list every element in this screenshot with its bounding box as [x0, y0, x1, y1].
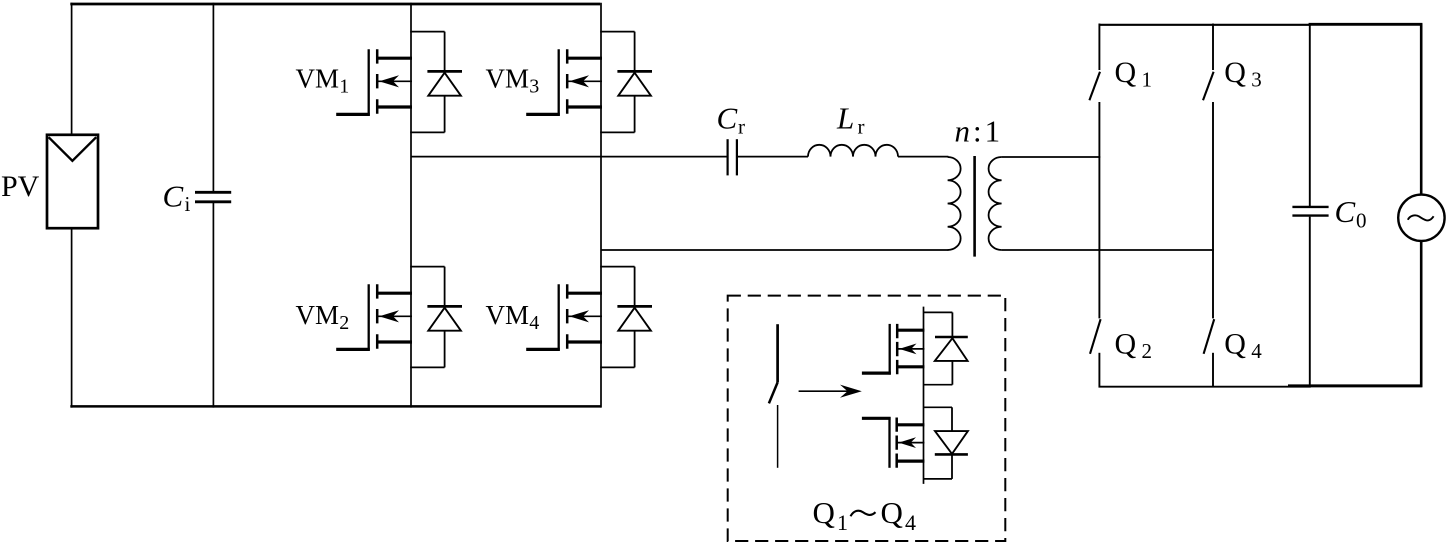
box mosfet lower drain lead	[897, 423, 925, 426]
transistor VM4 gate line	[558, 284, 560, 351]
transistor VM4 gate lead	[526, 348, 560, 351]
wire secondary top lead	[1002, 156, 1101, 158]
wire output node A to Cr	[411, 156, 727, 158]
switch Q1 blade	[1089, 72, 1100, 100]
transistor VM3 drain lead	[567, 57, 602, 60]
label Q1	[1115, 56, 1153, 92]
transistor VM2 body lead with arrow	[377, 310, 412, 322]
svg-text:1: 1	[1142, 67, 1153, 91]
transistor VM3 channel	[566, 49, 569, 114]
svg-text:3: 3	[529, 75, 539, 97]
label Ci	[163, 178, 191, 216]
wire right bottom bus bold segment	[1288, 384, 1422, 387]
switch symbol blade	[769, 382, 778, 403]
diode D1 top connector wire	[410, 31, 444, 33]
capacitor C0 plates	[1292, 207, 1328, 216]
switch Q3 blade	[1203, 72, 1214, 100]
transistor VM1 channel	[376, 49, 379, 114]
wire PV bottom lead	[71, 228, 73, 408]
wire Q3/Q4 leg upper	[1212, 24, 1214, 71]
diode D1 triangle	[428, 73, 461, 96]
wire top bus (DC link +)	[70, 3, 600, 6]
wire Ci upper lead	[212, 3, 214, 191]
box diode lower cathode bar	[935, 453, 968, 456]
box diode lower triangle (pointing down)	[935, 431, 968, 454]
svg-text:Q: Q	[1224, 327, 1246, 360]
transformer T1 secondary winding	[989, 157, 1002, 250]
box mosfet lower body lead with arrow	[897, 437, 925, 448]
box diode upper top connector	[924, 311, 953, 313]
transistor VM2 channel	[376, 284, 379, 349]
wire Q1/Q2 leg upper	[1098, 24, 1100, 71]
diode D2 cathode bar	[427, 305, 462, 308]
wire PV top lead	[71, 3, 73, 136]
diode D3 top connector wire	[600, 31, 634, 33]
wire Cr to Lr	[738, 156, 808, 158]
label PV	[1, 170, 40, 203]
diode D4 top connector wire	[600, 266, 634, 268]
box mosfet upper gate line	[889, 324, 891, 375]
svg-text:VM: VM	[486, 300, 530, 330]
label Q3	[1224, 56, 1262, 92]
transistor VM2 source lead	[377, 340, 412, 343]
svg-text:2: 2	[1142, 339, 1153, 363]
box diode lower branch lower	[951, 454, 953, 479]
svg-text:4: 4	[529, 312, 539, 334]
svg-text:4: 4	[1251, 339, 1262, 363]
label n:1	[955, 114, 1001, 149]
wire AC source lower lead	[1420, 241, 1423, 387]
switch Q2 blade	[1090, 319, 1101, 354]
wire Q1/Q2 leg lower	[1098, 353, 1100, 388]
diode D3 bottom connector wire	[600, 131, 634, 133]
inductor Lr	[808, 145, 898, 157]
diode D2 bottom connector wire	[410, 366, 444, 368]
label VM2	[296, 300, 350, 334]
box mosfet upper body lead with arrow	[897, 344, 924, 355]
box mosfet lower gate lead	[862, 417, 891, 420]
diode D4 cathode bar	[617, 305, 652, 308]
box mosfet upper source lead	[897, 365, 924, 368]
svg-text:Q: Q	[1224, 56, 1246, 89]
wire C0 upper lead	[1309, 24, 1311, 207]
switch symbol lower contact	[777, 405, 779, 468]
svg-text:C: C	[717, 101, 738, 136]
svg-text:Q: Q	[813, 495, 835, 530]
svg-text:i: i	[185, 192, 191, 216]
diode D2 branch wire lower	[444, 331, 446, 368]
diode D1 cathode bar	[427, 70, 462, 73]
svg-text:C: C	[163, 178, 184, 213]
transformer T1 primary winding	[948, 157, 961, 250]
svg-text:Q: Q	[1115, 327, 1137, 360]
box mosfet center vertical wire	[923, 307, 925, 484]
box mosfet lower source lead	[897, 460, 925, 463]
box diode lower top connector	[924, 406, 953, 408]
svg-text:3: 3	[1251, 67, 1262, 91]
transistor VM4 drain lead	[567, 292, 602, 295]
svg-text:r: r	[858, 115, 865, 139]
svg-text:VM: VM	[296, 63, 340, 93]
svg-text:Q: Q	[881, 495, 903, 530]
wire bottom bus (DC link -)	[70, 405, 601, 408]
label Q4	[1224, 327, 1262, 363]
label Q2	[1115, 327, 1153, 363]
transistor VM1 drain lead	[377, 57, 412, 60]
label Lr	[836, 101, 865, 139]
diode D2 top connector wire	[410, 266, 444, 268]
box diode upper branch upper	[951, 312, 953, 337]
transistor VM3 gate line	[558, 49, 560, 116]
transistor VM2 gate lead	[336, 348, 370, 351]
diode D4 branch wire lower	[634, 331, 636, 368]
wire right bridge leg (VM3/VM4)	[600, 3, 602, 408]
wire Ci lower lead	[212, 203, 214, 408]
box diode upper bottom connector	[924, 384, 953, 386]
label VM3	[486, 63, 540, 97]
dashed box Q1~Q4 detail	[728, 296, 1006, 541]
box diode upper cathode bar	[935, 336, 968, 339]
label VM1	[296, 63, 350, 97]
switch symbol upper contact	[776, 324, 779, 382]
box diode lower branch upper	[951, 407, 953, 430]
PV panel symbol	[47, 135, 98, 228]
transistor VM3 body lead with arrow	[567, 75, 602, 87]
transistor VM4 body lead with arrow	[567, 310, 602, 322]
svg-text:n:1: n:1	[955, 114, 1001, 149]
box mosfet lower gate line	[888, 417, 890, 468]
wire Lr to transformer primary	[898, 156, 948, 158]
svg-text:VM: VM	[486, 63, 530, 93]
transistor VM2 gate line	[368, 284, 370, 351]
svg-text:PV: PV	[1, 170, 40, 203]
wire right top bus	[1099, 24, 1311, 26]
AC source circle	[1398, 195, 1444, 241]
diode D1 branch wire lower	[444, 96, 446, 133]
wire Q3/Q4 leg middle	[1212, 102, 1214, 318]
svg-text:L: L	[836, 101, 854, 136]
diode D3 branch wire upper	[634, 32, 636, 72]
wire Q3/Q4 leg lower	[1212, 353, 1214, 388]
wire C0 lower lead	[1309, 217, 1311, 388]
label Cr	[717, 101, 746, 139]
box diode lower bottom connector	[924, 478, 953, 480]
box diode upper branch lower	[951, 361, 953, 385]
svg-text:VM: VM	[296, 300, 340, 330]
label Q1~Q4	[813, 495, 917, 535]
diode D3 triangle	[618, 73, 651, 96]
transistor VM1 gate lead	[336, 113, 370, 116]
diode D1 branch wire upper	[444, 32, 446, 72]
capacitor Ci plates	[195, 192, 231, 202]
diode D2 branch wire upper	[444, 267, 446, 307]
wire right bottom bus	[1099, 386, 1311, 388]
transistor VM2 drain lead	[377, 292, 412, 295]
box mosfet upper drain lead	[897, 329, 924, 332]
transistor VM4 channel	[566, 284, 569, 349]
diode D4 bottom connector wire	[600, 366, 634, 368]
transistor VM4 source lead	[567, 340, 602, 343]
wire output node B to transformer primary bottom	[601, 249, 948, 251]
svg-text:0: 0	[1356, 209, 1367, 233]
wire Q1/Q2 leg middle	[1098, 102, 1100, 318]
wire AC source upper lead	[1420, 24, 1423, 196]
box mosfet upper gate lead	[862, 372, 891, 375]
box mosfet upper channel	[896, 324, 899, 374]
diode D3 branch wire lower	[634, 96, 636, 133]
diode D4 triangle	[618, 308, 651, 331]
transformer T1 core	[973, 156, 976, 257]
switch Q4 blade	[1204, 319, 1215, 354]
label C0	[1335, 194, 1367, 233]
wire left bridge leg (VM1/VM2)	[410, 3, 412, 408]
svg-text:2: 2	[339, 312, 349, 334]
wire right top bus bold segment	[1309, 23, 1423, 26]
svg-text:1: 1	[837, 510, 848, 535]
transistor VM1 source lead	[377, 105, 412, 108]
svg-text:Q: Q	[1115, 56, 1137, 89]
transistor VM3 source lead	[567, 105, 602, 108]
box mosfet lower channel	[895, 418, 898, 468]
transistor VM1 gate line	[368, 49, 370, 116]
box diode upper triangle	[935, 338, 968, 361]
label VM4	[486, 300, 540, 334]
svg-text:r: r	[738, 115, 745, 139]
transistor VM1 body lead with arrow	[377, 75, 412, 87]
diode D2 triangle	[428, 308, 461, 331]
diode D4 branch wire upper	[634, 267, 636, 307]
transistor VM3 gate lead	[526, 113, 560, 116]
capacitor Cr plates	[728, 139, 737, 175]
diode D1 bottom connector wire	[410, 131, 444, 133]
diode D3 cathode bar	[617, 70, 652, 73]
svg-text:1: 1	[339, 75, 349, 97]
equivalence arrow	[799, 385, 862, 398]
svg-text:4: 4	[905, 510, 916, 535]
wire secondary bottom lead	[1002, 249, 1214, 251]
svg-text:C: C	[1335, 194, 1356, 229]
